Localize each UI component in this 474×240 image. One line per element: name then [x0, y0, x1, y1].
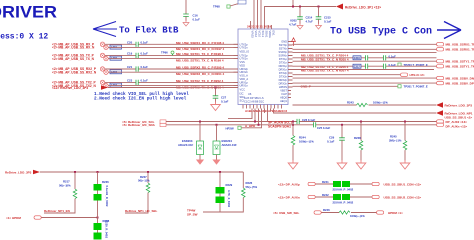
power arrow ReDriver_LDO_NP1: [436, 110, 473, 116]
net name SP_AUXN: [268, 120, 292, 124]
value label AUXn pair: [333, 201, 354, 205]
svg-text:0.1uF: 0.1uF: [141, 65, 149, 69]
capacitor C21: [127, 65, 148, 72]
ground for C214: [297, 19, 303, 29]
capacitor C214: [289, 16, 313, 27]
U6 bottom pin numbers: [245, 109, 288, 113]
wire TP98 to net box: [230, 4, 238, 6]
wire R227 to HC_SEL node: [125, 193, 148, 213]
net name MB_USB_SSRX2 lower: [176, 72, 225, 76]
capacitor C215: [316, 16, 332, 24]
svg-text:URX1n: URX1n: [240, 84, 249, 88]
capacitor C217: [366, 64, 368, 69]
svg-text:ReDrive_LDO_3P1 <13>: ReDrive_LDO_3P1 <13>: [345, 6, 381, 10]
arrow to Plex BtB: [93, 22, 117, 37]
connector MB_USB_SSBV_DN: [437, 76, 474, 80]
net box C216: [353, 56, 361, 60]
svg-text:100k(+-)1%: 100k(+-)1%: [350, 214, 365, 218]
svg-text:C20: C20: [127, 40, 133, 44]
wire R245 drop: [404, 122, 406, 141]
svg-text:AUX DP SBU LS: AUX DP SBU LS: [244, 96, 264, 100]
net name MB_USB_SSRX1 upper: [176, 41, 224, 45]
net name block SSTX1 upper: [301, 54, 349, 58]
power arrow bottom bus: [33, 170, 40, 174]
svg-text:USB_SS_SBU2_CON <13>: USB_SS_SBU2_CON <13>: [384, 195, 422, 199]
wire R227 drop: [147, 172, 149, 183]
wire G3 lower: [108, 71, 238, 73]
op-amp U6 redriver IC body: [238, 29, 288, 105]
connector USB_SS_SBU2_CON: [372, 195, 421, 199]
svg-text:C26 0.1uF: C26 0.1uF: [302, 118, 316, 122]
junction R228: [360, 121, 362, 123]
resistor R247: [342, 181, 350, 187]
wire R217 to EN node: [44, 199, 75, 213]
svg-text:ReDrive_LDO_3P3: ReDrive_LDO_3P3: [5, 170, 32, 174]
svg-text:0.1uF: 0.1uF: [141, 40, 149, 44]
wire G4 lower: [108, 85, 238, 87]
svg-text:<12> ReDrive_LDO_3P3: <12> ReDrive_LDO_3P3: [52, 86, 88, 90]
connector pin SS_RX2_P: [100, 67, 104, 71]
U6 bottom pin wire 6: [267, 109, 269, 122]
connector pin SS_RX2_N: [104, 70, 108, 74]
wire TP201 row: [293, 85, 398, 87]
svg-text:VC10: VC10: [257, 31, 261, 38]
wire DP_AUXp row: [316, 183, 373, 185]
node MB_AP_USB_SS_TX2 pair labels: [52, 81, 96, 88]
svg-text:SSTXn: SSTXn: [279, 47, 288, 51]
ground for R244: [288, 145, 298, 169]
svg-text:SSRXp: SSRXp: [278, 50, 287, 54]
net name MB_USB_SSTX1 lower: [176, 58, 224, 62]
svg-text:USB_SS_SBU1 <2>: USB_SS_SBU1 <2>: [445, 116, 473, 120]
net USB_SS_SBU label: [445, 116, 473, 120]
node A_HPD label: [245, 124, 256, 128]
wire row 3: [293, 52, 437, 54]
wire G1 lower: [108, 46, 238, 48]
svg-text:TP96: TP96: [161, 51, 168, 55]
net name MB_USB_SSRX2 upper: [176, 66, 224, 70]
node MB_AP_USB_SS_RX2 pair labels: [52, 67, 97, 74]
svg-text:0.1uF: 0.1uF: [141, 51, 149, 55]
wire U6 top pin 2 to top edge: [257, 0, 259, 24]
wire LDO to U6 VCC: [108, 87, 238, 89]
junction R227: [147, 171, 149, 173]
svg-text:2SUAH_P_0402: 2SUAH_P_0402: [333, 188, 354, 192]
svg-text:EN1: EN1: [271, 31, 275, 37]
junction C29: [341, 124, 343, 126]
svg-text:VC12: VC12: [254, 31, 258, 38]
net ReDriver_I2C_SCL label: [122, 120, 166, 124]
ESD diode D203: [178, 139, 204, 155]
ground for D203: [196, 155, 204, 165]
capacitor C26: [297, 118, 316, 124]
ground for R228: [356, 150, 366, 169]
svg-text:<2> MB_AP_USB_SS_RX2_N: <2> MB_AP_USB_SS_RX2_N: [52, 70, 97, 74]
title text DRIVER: [0, 4, 57, 22]
wire I2C SDA rail: [166, 124, 437, 126]
resistor R217: [59, 180, 77, 199]
wire ESD204 drop: [216, 125, 218, 141]
svg-text:MB_USB_SSTX1_TX_C_N R199 4: MB_USB_SSTX1_TX_C_N R199 4: [176, 58, 224, 62]
svg-text:HTE-N <2>: HTE-N <2>: [410, 73, 425, 77]
capacitor C216: [366, 55, 368, 60]
connector MB_USB_SSTY1_TN: [437, 65, 474, 69]
wire C214 drop: [299, 7, 301, 17]
junction R244 on SDA: [292, 124, 294, 126]
wire SSTX1 row with caps: [293, 57, 437, 59]
svg-text:VCC: VCC: [240, 87, 246, 91]
wire G2 lower: [108, 58, 238, 60]
svg-text:0.1uF: 0.1uF: [389, 54, 397, 58]
resistor R230: [216, 194, 225, 204]
junction SCL at ESD203: [199, 121, 201, 123]
wire SSBV_DN row: [293, 77, 437, 79]
wire R228 drop: [360, 122, 362, 141]
resistor R227: [138, 175, 150, 193]
testpoint TP24: [226, 126, 242, 130]
connector DP_AUX2: [437, 120, 468, 124]
svg-text:DRX1p: DRX1p: [279, 64, 288, 68]
testpoint TP201: [398, 85, 428, 89]
resistor R245: [389, 135, 407, 151]
wire R226 to SW node: [220, 198, 243, 212]
svg-text:MB_USB_SSTY1_TN <13>: MB_USB_SSTY1_TN <13>: [446, 65, 474, 69]
svg-text:VDD_IO: VDD_IO: [240, 49, 250, 53]
svg-text:AEQ1: AEQ1: [280, 99, 287, 103]
svg-text:AEQ0: AEQ0: [280, 96, 287, 100]
svg-text:MB_USB_SSTX1_TX_C_P R198 4: MB_USB_SSTX1_TX_C_P R198 4: [176, 52, 224, 56]
svg-text:100k(+-)1%: 100k(+-)1%: [373, 101, 388, 105]
resistor R237: [94, 191, 102, 201]
svg-text:MB_USB_SSRX1_TP <13>: MB_USB_SSRX1_TP <13>: [446, 43, 474, 47]
wire R229 stack top: [219, 172, 221, 187]
U6 bottom pin wire 1: [228, 109, 252, 119]
wire HPDM row: [42, 217, 98, 219]
U6 bottom pin wire 4 TP row: [242, 109, 262, 128]
wire SSRX1_TP row: [293, 43, 437, 45]
wire ESD203 drop: [199, 122, 201, 142]
svg-text:C25 3.3uF: C25 3.3uF: [317, 126, 331, 130]
connector MB_USB_SSTY1_TP: [437, 60, 474, 64]
capacitor C218: [384, 54, 397, 60]
ground for C27: [211, 98, 221, 110]
value label R229 stack: [227, 190, 231, 208]
svg-text:DTX1n: DTX1n: [279, 61, 288, 65]
wire R217 drop: [74, 172, 76, 189]
wire G4 upper: [105, 81, 238, 83]
svg-text:0.1uF: 0.1uF: [221, 99, 229, 103]
svg-text:24 23 22 21 20 19: 24 23 22 21 20 19: [247, 25, 272, 29]
svg-text:SSRXn: SSRXn: [278, 54, 287, 58]
net label box at top of U6: [238, 0, 246, 4]
U6 bottom pin wire 2 to SCL: [254, 109, 256, 123]
svg-text:SCADPN SDA1: SCADPN SDA1: [268, 125, 291, 129]
svg-text:<5> ReDriver_I2C_SDA: <5> ReDriver_I2C_SDA: [122, 123, 156, 127]
net name block SSTX2 upper: [301, 65, 349, 69]
svg-text:DTX2p: DTX2p: [279, 71, 288, 75]
U6 bottom inner labels: [244, 92, 264, 104]
svg-text:ReDriver_NP1_EN: ReDriver_NP1_EN: [44, 209, 70, 213]
node MB_AP_USB_SS_RX pair labels: [52, 43, 95, 50]
svg-text:R241: R241: [322, 180, 329, 184]
svg-text:C19: C19: [127, 51, 133, 55]
net box G4: [110, 83, 122, 87]
wire R236 stack top: [97, 172, 99, 184]
svg-text:To USB Type C Con: To USB Type C Con: [330, 27, 432, 38]
wire U6 top pin 3 to top edge: [260, 0, 262, 24]
svg-text:VDD: VDD: [240, 63, 246, 67]
svg-text:<13> DP_AUXp: <13> DP_AUXp: [278, 182, 300, 186]
svg-text:A_HPD: A_HPD: [245, 124, 256, 128]
connector MB_USB_SSRX1_TN: [437, 48, 474, 52]
resistor R238: [94, 219, 110, 230]
svg-text:<2> MB_AP_USB_SS_RX_N: <2> MB_AP_USB_SS_RX_N: [52, 46, 95, 50]
ground for C215: [316, 19, 322, 29]
wire G1 upper: [105, 43, 238, 45]
svg-text:4.7K_X_0402: 4.7K_X_0402: [227, 190, 231, 208]
wire R229 stack to SW node: [203, 203, 220, 212]
connector USB_SS_SBU1_CON: [372, 182, 421, 186]
svg-text:SP_SW: SP_SW: [187, 213, 198, 217]
power arrow ReDriver_LDO_3P3 right: [436, 102, 472, 108]
connector HTE-N: [401, 73, 425, 77]
svg-text:R242: R242: [322, 193, 329, 197]
capacitor C29: [327, 136, 345, 144]
svg-text:USB_SS_SBU1_CON <13>: USB_SS_SBU1_CON <13>: [384, 182, 422, 186]
resistor R236: [94, 180, 110, 190]
wire SSTX2 row with caps: [293, 65, 437, 67]
U6 top pin numbers: [247, 25, 272, 29]
resistor R229: [216, 183, 233, 193]
wire SSTY1_TP row: [293, 60, 437, 62]
label To USB Type C Con: [330, 27, 432, 38]
svg-text:0.1uF: 0.1uF: [324, 20, 332, 24]
svg-text:VDD_A: VDD_A: [240, 77, 249, 81]
U6 top pin stubs: [251, 24, 272, 30]
net box G2: [110, 56, 122, 60]
svg-text:ADA2X-01F: ADA2X-01F: [178, 143, 194, 147]
net name MB_USB_SSTX2 lower: [176, 85, 224, 89]
svg-text:C21: C21: [127, 65, 133, 69]
connector HPDM left: [34, 216, 41, 219]
U6 left pin names: [240, 42, 250, 102]
svg-text:VIN33: VIN33: [250, 31, 254, 39]
svg-text:0.1uF: 0.1uF: [327, 140, 335, 144]
wire R226 branch: [242, 172, 244, 188]
svg-text:DRX1n: DRX1n: [279, 68, 288, 72]
svg-text:Address:0 X 12: Address:0 X 12: [0, 33, 48, 42]
wire G3 upper: [105, 68, 238, 70]
wire top feed at x293: [292, 0, 294, 8]
node DP_AUXp label: [278, 182, 300, 186]
svg-text:U6: U6: [248, 92, 252, 96]
svg-text:HPDIN: HPDIN: [279, 85, 287, 89]
svg-text:0.1uF: 0.1uF: [141, 78, 149, 82]
capacitor C20: [127, 40, 148, 47]
net name MB_USB_SSTX2 upper: [176, 79, 224, 83]
U6 bottom pin wire 8 NP1 row: [274, 109, 437, 114]
wire C29 drop: [341, 125, 343, 138]
svg-text:R236: R236: [102, 180, 109, 184]
U6 bottom pin wire 3 to SDA: [258, 109, 260, 126]
value label AUXp pair: [333, 188, 354, 192]
svg-text:MB_USB_SSTX2_TX_C_P R202 4: MB_USB_SSTX2_TX_C_P R202 4: [176, 79, 224, 83]
svg-text:<5> USB_SW_SEL: <5> USB_SW_SEL: [273, 211, 300, 215]
U6 bottom pin stubs: [243, 105, 282, 109]
connector DP_AUXn: [308, 195, 315, 198]
svg-text:C217: C217: [354, 65, 361, 68]
connector DP_AUXp: [308, 182, 315, 185]
wire R244 drop: [292, 122, 294, 136]
svg-text:<2> MB_AP_USB_SS_TX_N: <2> MB_AP_USB_SS_TX_N: [52, 57, 95, 61]
connector pin SS_RX_N: [104, 45, 108, 49]
svg-text:R243: R243: [347, 101, 354, 105]
testpoint TP96: [161, 51, 174, 56]
svg-text:100k(+-)1%: 100k(+-)1%: [299, 140, 314, 144]
svg-text:56(+-)1%: 56(+-)1%: [138, 179, 150, 183]
arrow to USB Type C connector: [437, 22, 461, 39]
wire 100k pullup row: [293, 104, 437, 106]
wire U6 top pin 1 to top edge: [253, 0, 255, 24]
svg-text:TP98: TP98: [213, 5, 220, 9]
svg-text:DP_AUX2 <13>: DP_AUX2 <13>: [446, 120, 468, 124]
net name block SSTX1 lower: [301, 57, 349, 61]
svg-text:2.Need check I2C_EN pull high: 2.Need check I2C_EN pull high level: [94, 96, 187, 101]
svg-text:DRIVER: DRIVER: [0, 4, 57, 22]
resistor R228: [354, 136, 363, 150]
wire DP_AUXn row: [316, 196, 373, 198]
power flag at U6 right top: [292, 38, 296, 46]
resistor R243: [347, 101, 388, 107]
wire SSBV_DP row: [293, 82, 437, 84]
wire LDO rail from U6 top pin 5: [265, 7, 337, 24]
node GND_P label: [301, 84, 311, 88]
net ReDriver_I2C_SDA label: [122, 123, 166, 127]
wire bottom LDO bus: [40, 171, 243, 173]
subtitle Address:0 X 12: [0, 33, 48, 42]
junction SDA at ESD204: [216, 124, 218, 126]
svg-text:ADA2X-01F: ADA2X-01F: [222, 143, 238, 147]
svg-text:4.7uF: 4.7uF: [306, 20, 314, 24]
wire C16 to ground: [185, 16, 187, 21]
connector USB_SW_SEL: [314, 211, 321, 214]
svg-text:C1C2 A8 B8 D1C: C1C2 A8 B8 D1C: [244, 100, 264, 104]
svg-text:MB_USB_SSRX1_TN <13>: MB_USB_SSRX1_TN <13>: [446, 48, 474, 52]
svg-text:I2C: I2C: [240, 92, 244, 96]
net name block SSTX2 lower: [301, 69, 349, 73]
svg-text:0.1uF: 0.1uF: [389, 63, 397, 67]
power net ReDrive_LDO_3P3 label: [52, 86, 88, 90]
power arrow ReDrive_LDO_3P3 feed: [101, 85, 108, 89]
svg-text:MB_USB_SSRX2_RX_C_N R201 4: MB_USB_SSRX2_RX_C_N R201 4: [176, 72, 225, 76]
connector pin SS_TX2_P: [100, 80, 104, 84]
svg-text:DTX2n: DTX2n: [279, 75, 288, 79]
U6 bottom pin stub 7: [270, 109, 272, 112]
junction rail at C214: [299, 6, 301, 8]
wire HTE-N row: [293, 74, 401, 76]
svg-text:VBST: VBST: [280, 89, 287, 93]
connector pin SS_TX_N: [104, 56, 108, 60]
connector HPDM right: [377, 211, 404, 215]
junction R244 on SCL: [292, 121, 294, 123]
wire to C16 from top edge: [185, 0, 187, 14]
stub U6 top pin 4: [250, 21, 252, 24]
connector pin SS_TX_P: [100, 53, 104, 57]
testpoint TP98: [213, 5, 230, 9]
wire G2 upper: [105, 54, 238, 56]
svg-text:TP201 T_POINT_E: TP201 T_POINT_E: [404, 85, 428, 89]
connector MB_USB_SSBV_DP: [437, 81, 474, 85]
capacitor C25: [314, 122, 331, 130]
svg-text:R239_R_0402: R239_R_0402: [105, 220, 109, 238]
svg-text:URX2n: URX2n: [240, 70, 249, 74]
connector pin SS_TX2_N: [104, 83, 108, 87]
svg-text:VDDA: VDDA: [268, 31, 272, 38]
power net ReDrive_LDO_3P3 bottom label: [5, 170, 32, 174]
junction at C27: [215, 87, 217, 89]
label To Flex BtB: [119, 26, 179, 36]
svg-text:ReDriver_LDO_3P3: ReDriver_LDO_3P3: [445, 103, 473, 107]
node TP4W SP_SW labels: [187, 208, 198, 216]
resistor R246: [323, 208, 365, 218]
resistor R241: [322, 180, 341, 187]
svg-text:SDA1: SDA1: [264, 31, 268, 38]
node USB_SW_SEL label: [273, 211, 300, 215]
junction HPDM node: [97, 217, 99, 219]
wire R237 to HPDM node: [97, 201, 99, 224]
svg-text:ReDrive_NP1_HC_SEL: ReDrive_NP1_HC_SEL: [125, 209, 158, 213]
svg-text:2SUAH_P_0402: 2SUAH_P_0402: [333, 201, 354, 205]
svg-text:UTX2n: UTX2n: [240, 45, 249, 49]
connector DP_AUXn: [437, 123, 468, 129]
svg-text:MB_USB_SSTY1_TP <13>: MB_USB_SSTY1_TP <13>: [446, 60, 474, 64]
svg-text:DRX2p: DRX2p: [279, 78, 288, 82]
svg-text:DRX2n: DRX2n: [279, 82, 288, 86]
ground for C29: [337, 140, 347, 169]
svg-text:R229: R229: [226, 183, 233, 187]
ground for R245: [400, 150, 410, 169]
svg-text:C216: C216: [354, 57, 361, 60]
net box G1: [110, 45, 122, 49]
svg-text:<13> DP_AUXn: <13> DP_AUXn: [278, 195, 300, 199]
net ReDrive_NP1_HC_SEL label: [125, 209, 158, 213]
capacitor C27: [213, 95, 229, 103]
svg-text:FLIP: FLIP: [282, 92, 288, 96]
net name MB_USB_SSRX1 lower: [176, 47, 225, 51]
junction R217: [74, 171, 76, 173]
svg-text:A1B2A3B4A5B6A7B8A9B1C2: A1B2A3B4A5B6A7B8A9B1C2: [245, 109, 288, 113]
ground for C16: [183, 20, 189, 26]
wire C27 drop: [215, 88, 217, 96]
value label R236 stack: [105, 186, 109, 207]
svg-text:<1> HPDM: <1> HPDM: [6, 216, 21, 220]
junction rail at C215: [318, 6, 320, 8]
svg-text:DP_AUXn <13>: DP_AUXn <13>: [446, 125, 468, 129]
resistor R242: [322, 193, 341, 200]
junction R236: [97, 171, 99, 173]
svg-text:56(+-)5%: 56(+-)5%: [246, 185, 258, 189]
svg-text:UTX1n: UTX1n: [240, 57, 249, 61]
svg-text:HP2W: HP2W: [226, 127, 234, 131]
svg-text:SSTXp: SSTXp: [279, 43, 288, 47]
node MB_AP_USB_SS_TX pair labels: [52, 54, 95, 61]
U6 right pin names: [278, 40, 287, 104]
svg-text:SCL1: SCL1: [261, 31, 265, 38]
svg-text:56(+-)5%: 56(+-)5%: [59, 184, 71, 188]
power arrow ReDrive_LDO_3P1: [336, 4, 381, 10]
svg-text:GND: GND: [281, 40, 287, 44]
svg-text:VSS: VSS: [240, 60, 245, 64]
